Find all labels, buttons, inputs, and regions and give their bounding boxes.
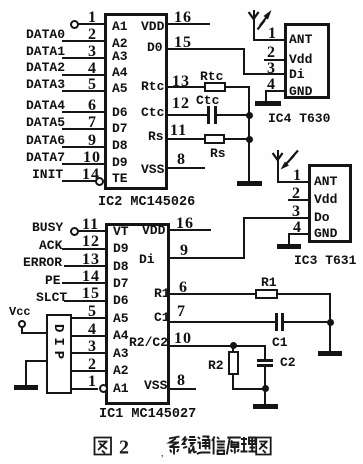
value label R2 xyxy=(208,359,224,372)
value label R1 xyxy=(261,276,277,289)
pin number 7 xyxy=(88,115,97,131)
pin label Vdd xyxy=(314,193,337,206)
pin label D0 xyxy=(147,41,163,54)
wire R2 top stub xyxy=(232,345,234,352)
wire DIP to ground horizontal xyxy=(25,360,46,362)
power Vcc label xyxy=(9,306,31,318)
pin number 12 xyxy=(82,234,100,250)
pin label D7 xyxy=(113,277,129,290)
wire RC ground rail vertical xyxy=(248,86,250,183)
ground DIP bar xyxy=(14,385,38,390)
pin number 16 xyxy=(176,216,194,232)
ground T631 bar xyxy=(277,244,301,249)
IC1 name label xyxy=(99,408,196,422)
pin number 8 xyxy=(177,152,186,168)
wire pin9 Di horizontal xyxy=(170,257,245,259)
value label Rtc xyxy=(200,70,223,83)
glyph tu (figure) xyxy=(95,438,112,455)
pin number 4 xyxy=(88,322,97,338)
pin number 2 T631 xyxy=(292,186,301,202)
pin number 11 xyxy=(170,123,187,139)
capacitor C1 plate2 xyxy=(281,313,284,331)
pin label Vdd xyxy=(289,53,312,66)
terminal circle pin1 xyxy=(70,20,79,29)
wire pin11 to Rs xyxy=(168,138,204,140)
glyph tong (pass) xyxy=(197,437,211,455)
pin label Rs xyxy=(148,130,164,143)
pin label A1 xyxy=(113,382,129,395)
pin label Di xyxy=(289,68,305,81)
IC U1 MC145027 body xyxy=(105,223,170,405)
junction Rs-rail xyxy=(246,136,253,143)
wire pin6 to R1 xyxy=(170,293,255,295)
wire pin12 to Ctc xyxy=(168,114,207,116)
terminal circle Vcc xyxy=(18,320,26,328)
pin label TE xyxy=(112,172,128,185)
pin label D6 xyxy=(113,294,129,307)
pin label Ctc xyxy=(141,106,164,119)
ground right rail bar xyxy=(318,351,342,356)
pin label VDD xyxy=(141,20,164,33)
pin number 1 T630 xyxy=(268,26,277,42)
wire C1 to right rail xyxy=(283,321,331,323)
wire T630 pin3 Di xyxy=(243,73,284,75)
wire pin1 A1 xyxy=(71,388,98,390)
junction C1-rail xyxy=(327,319,334,326)
wire R1 to right rail xyxy=(278,293,331,295)
pin label R2/C2 xyxy=(129,336,168,349)
wire T631 pin2 Vdd xyxy=(288,199,308,201)
wire pin11 xyxy=(78,230,105,232)
wire pin10 xyxy=(62,163,104,165)
wire C2 top drop xyxy=(264,345,266,359)
ground rail bar xyxy=(237,181,262,186)
wire pin9 Di vertical xyxy=(243,217,245,258)
wire T630 pin4 GND xyxy=(265,90,284,92)
capacitor C2 plate2 xyxy=(257,364,273,367)
wire pin14 xyxy=(62,282,105,284)
wire pin1 xyxy=(78,23,104,25)
wire pin10 R2/C2 xyxy=(170,345,266,347)
pin number 14 xyxy=(82,167,100,183)
junction R2 top xyxy=(230,342,237,349)
pin label D9 xyxy=(113,242,129,255)
capacitor Ctc plate1 xyxy=(207,106,210,124)
pin number 3 T631 xyxy=(292,204,301,220)
net label PE xyxy=(45,274,61,287)
pin number 7 xyxy=(177,304,186,320)
wire pin7 to C1 xyxy=(170,321,275,323)
pin label A2 xyxy=(112,37,128,50)
pin number 4 T631 xyxy=(293,220,302,236)
IC U2 MC145026 body xyxy=(104,13,168,190)
wire T630 pin1 ANT xyxy=(253,39,284,41)
glyph li (theory) xyxy=(241,437,257,452)
IC3 name label xyxy=(294,254,356,267)
pin number 14 xyxy=(82,269,100,285)
pin number 12 xyxy=(172,96,190,112)
net label DATA2 xyxy=(26,61,65,74)
pin number 6 xyxy=(88,98,97,114)
pin label D8 xyxy=(112,139,128,152)
capacitor Ctc plate2 xyxy=(214,106,217,124)
IC U4 T630 body xyxy=(284,23,330,99)
pin number 2 xyxy=(88,357,97,373)
DIP switch body xyxy=(46,314,72,394)
pin number 1 xyxy=(88,374,97,390)
wire right rail vertical R1-C1 xyxy=(329,293,331,353)
wire T631 pin3 Do xyxy=(243,217,308,219)
wire pin5 A5 xyxy=(71,317,105,319)
value label Rs xyxy=(210,147,226,160)
wire T630 GND drop xyxy=(265,90,267,102)
pin number 5 xyxy=(88,77,97,93)
glyph tong (unify) xyxy=(183,437,197,453)
svg-text:,: , xyxy=(161,448,164,459)
junction Ctc-rail xyxy=(246,112,253,119)
value label Ctc xyxy=(196,94,219,107)
pin number 3 xyxy=(88,44,97,60)
wire pin16 VDD xyxy=(170,229,211,231)
wire DIP ground drop xyxy=(25,360,27,386)
wire pin6 xyxy=(62,111,104,113)
net label ERROR xyxy=(23,256,62,269)
pin number 9 xyxy=(88,133,97,149)
wire Rs to rail xyxy=(225,138,250,140)
pin label A2 xyxy=(113,364,129,377)
pin label D8 xyxy=(113,260,129,273)
wire T631 GND drop xyxy=(288,233,290,246)
pin label GND xyxy=(314,227,337,240)
pin label VT xyxy=(113,225,129,238)
antenna icon T631 xyxy=(268,146,304,180)
net label DATA5 xyxy=(26,116,65,129)
resistor R1 xyxy=(255,289,278,299)
ground T630 bar xyxy=(255,101,281,106)
inversion bubble TE xyxy=(95,177,104,186)
pin label A4 xyxy=(113,329,129,342)
wire Ctc to rail xyxy=(216,114,250,116)
pin label A4 xyxy=(112,66,128,79)
wire T630 antenna mast xyxy=(253,10,255,40)
net label DATA6 xyxy=(26,134,65,147)
wire pin4 A4 xyxy=(71,335,105,337)
pin number 2 xyxy=(88,27,97,43)
wire T631 antenna mast xyxy=(277,150,279,182)
pin number 1 T631 xyxy=(293,168,302,184)
pin number 11 xyxy=(82,217,99,233)
pin number 1 xyxy=(88,10,97,26)
glyph tu (figure) 2nd xyxy=(256,438,271,455)
net label INIT xyxy=(32,168,63,181)
pin number 13 xyxy=(82,252,100,268)
junction C2 bottom xyxy=(262,385,269,392)
inversion bubble A1 xyxy=(99,384,108,393)
pin number 6 xyxy=(179,280,188,296)
pin label Do xyxy=(314,211,330,224)
pin label D9 xyxy=(112,156,128,169)
wire C2 bottom drop xyxy=(264,367,266,389)
terminal circle pin11 xyxy=(70,227,79,236)
net label BUSY xyxy=(32,221,63,234)
pin label VDD xyxy=(142,224,165,237)
pin label A5 xyxy=(113,312,129,325)
svg-text:2: 2 xyxy=(119,437,129,459)
pin number 10 xyxy=(174,331,192,347)
pin label GND xyxy=(289,85,312,98)
wire R2 bottom stub xyxy=(232,375,234,389)
pin label ANT xyxy=(289,33,312,46)
resistor Rs xyxy=(204,134,225,144)
net label DATA0 xyxy=(26,28,65,41)
pin number 13 xyxy=(172,74,190,90)
pin number 15 xyxy=(82,286,100,302)
wire T631 pin4 GND xyxy=(288,233,308,235)
wire pin4 xyxy=(62,74,104,76)
pin label R1 xyxy=(154,287,170,300)
wire pin15 xyxy=(64,300,105,302)
pin label A5 xyxy=(112,82,128,95)
wire pin2 A2 xyxy=(71,370,105,372)
wire pin2 xyxy=(62,40,104,42)
glyph yuan (origin) xyxy=(227,438,241,455)
pin label VSS xyxy=(141,163,164,176)
wire pin8 VSS stub xyxy=(168,167,205,169)
wire pin5 xyxy=(62,90,104,92)
pin number 16 xyxy=(174,10,192,26)
wire pin12 xyxy=(62,248,105,250)
wire pin13 to Rtc xyxy=(168,86,204,88)
capacitor C2 plate1 xyxy=(257,359,273,362)
IC U3 T631 body xyxy=(308,164,352,243)
pin number 2 T630 xyxy=(267,45,276,61)
wire C2 ground drop xyxy=(264,388,266,404)
wire pin9 xyxy=(62,146,104,148)
wire pin7 xyxy=(62,128,104,130)
capacitor C1 plate1 xyxy=(275,313,278,331)
wire T630 pin2 Vdd xyxy=(264,59,284,61)
wire pin15 D0 horizontal xyxy=(168,48,245,50)
pin number 9 xyxy=(180,243,189,259)
pin number 4 T630 xyxy=(267,77,276,93)
net label DATA1 xyxy=(26,45,65,58)
pin label D6 xyxy=(112,106,128,119)
net label ACK xyxy=(39,239,62,252)
net label SLCT xyxy=(36,291,67,304)
wire Rtc to rail xyxy=(226,86,250,88)
pin label D7 xyxy=(112,122,128,135)
value label C2 xyxy=(280,356,296,369)
wire pin15 D0 vertical xyxy=(243,48,245,75)
wire pin14 xyxy=(62,180,96,182)
pin number 15 xyxy=(174,35,192,51)
wire pin3 A3 xyxy=(71,352,105,354)
ground R2C2 bar xyxy=(253,404,278,409)
wire pin13 xyxy=(64,265,105,267)
net label DATA7 xyxy=(26,151,65,164)
pin number 8 xyxy=(177,373,186,389)
pin label Di xyxy=(139,253,155,266)
wire pin3 xyxy=(62,57,104,59)
net label DATA4 xyxy=(26,99,65,112)
value label C1 xyxy=(272,336,288,349)
wire pin8 VSS stub xyxy=(170,388,196,390)
antenna icon T630 xyxy=(244,7,280,41)
glyph xi (system) xyxy=(169,437,180,455)
IC4 name label xyxy=(268,112,330,125)
pin number 3 xyxy=(88,339,97,355)
DIP label xyxy=(51,324,65,364)
pin number 5 xyxy=(88,304,97,320)
wire pin16 VDD xyxy=(168,23,210,25)
pin label C1 xyxy=(154,311,170,324)
resistor R2 xyxy=(228,351,239,375)
pin number 4 xyxy=(88,61,97,77)
pin label A1 xyxy=(112,20,128,33)
wire R2-C2 bottom join xyxy=(232,388,266,390)
pin label A3 xyxy=(112,50,128,63)
pin label VSS xyxy=(144,379,167,392)
glyph xin (letter) xyxy=(212,437,225,455)
pin label ANT xyxy=(314,175,337,188)
pin label Rtc xyxy=(141,80,164,93)
wire Vcc to DIP xyxy=(21,332,46,334)
net label DATA3 xyxy=(26,78,65,91)
caption figure 2 chinese text xyxy=(88,433,288,461)
pin number 3 T630 xyxy=(267,61,276,77)
pin number 10 xyxy=(83,150,101,166)
pin label A3 xyxy=(113,347,129,360)
wire T631 pin1 ANT xyxy=(277,181,308,183)
wire Vcc drop xyxy=(21,327,23,334)
resistor Rtc xyxy=(204,82,226,92)
IC2 name label xyxy=(98,196,195,210)
